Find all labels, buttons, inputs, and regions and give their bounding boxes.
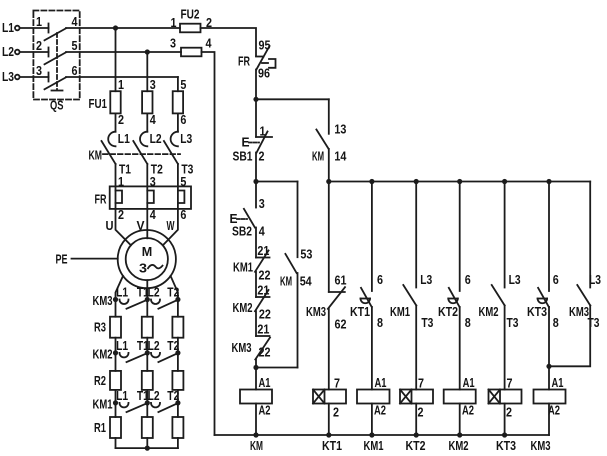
svg-text:A2: A2 [374,403,386,418]
QS pole 1 fixed contact [48,24,50,33]
svg-text:L2: L2 [148,338,160,353]
svg-text:A1: A1 [375,375,387,390]
svg-text:1: 1 [118,77,124,92]
junction rotor bus C KM3 row [175,297,180,302]
svg-text:KM3: KM3 [531,438,551,453]
wire phase C down to FU1 [177,77,179,91]
wire rotor lead 2 [146,280,148,299]
junction rotor bus B KM2 row [145,350,150,355]
svg-text:T3: T3 [421,315,433,330]
wire rung2 upper [371,182,373,292]
wire rung1 upper [328,182,330,292]
contactor KM main contact pole 3 fixed arc [171,132,178,147]
wire self-hold join [256,367,298,369]
svg-text:6: 6 [377,272,383,287]
svg-text:5: 5 [180,174,186,189]
junction rotor bus A KM2 row [113,350,118,355]
junction control bus rung 6 [546,179,551,184]
fuse FU1 pole 3 [173,91,183,113]
time relay KT1 NO delayed contact [361,288,372,307]
svg-text:KM1: KM1 [390,304,410,319]
svg-text:L2: L2 [150,131,162,146]
wire V to motor [146,209,148,238]
junction bottom KT3 [502,432,507,437]
svg-text:14: 14 [334,148,347,163]
svg-text:SB2: SB2 [232,224,252,239]
junction FR output [253,97,258,102]
svg-text:95: 95 [259,38,271,53]
wire KM pole 2 to FR heater [146,164,148,187]
wire rotor column C segments [177,300,179,317]
junction rotor bus C KM2 row [175,350,180,355]
svg-text:L1: L1 [116,285,128,300]
svg-text:1: 1 [118,174,124,189]
resistor R1 phase 3 [172,417,183,438]
svg-text:6: 6 [553,272,559,287]
svg-text:QS: QS [50,98,64,113]
wire rotor star point [116,447,178,449]
svg-text:KT2: KT2 [438,304,458,319]
KM1 contact a blade [127,403,147,412]
contactor KM main contact pole 3 blade [164,141,178,164]
svg-text:R2: R2 [94,373,106,388]
wire W to motor [163,209,178,245]
svg-text:KM2: KM2 [449,438,469,453]
svg-text:4: 4 [150,112,157,127]
wire QS pin4 to FU2 upper fuse [66,27,180,29]
wire control bus segment A [256,181,298,183]
wire KM coil to bottom bus [255,404,257,436]
svg-text:L3: L3 [180,131,192,146]
svg-text:SB1: SB1 [233,149,253,164]
contactor KM main contact pole 1 blade [102,141,116,164]
junction control bus left [253,179,258,184]
contactor KM main contact pole 2 blade [133,141,147,164]
junction rotor bus B KM1 row [145,400,150,405]
svg-text:21: 21 [257,322,269,337]
resistor R3 phase 3 [172,317,183,338]
junction control bus rung 1 [326,179,331,184]
junction control bus rung 3 [414,179,419,184]
svg-text:KM: KM [250,438,263,453]
QS pole 3 fixed contact [48,73,50,82]
KM1 contact b fixed arc [151,403,160,408]
contactor KM3 NO self-hold contact L3-T3 [577,285,590,306]
svg-text:4: 4 [150,207,157,222]
wire rung2 lower [371,307,373,390]
junction rotor bus A KM3 row [113,297,118,302]
junction control bus rung 2 [369,179,374,184]
wire self-hold branch lower [297,273,299,368]
motor M 3-phase [118,230,176,288]
resistor R3 phase 1 [110,317,121,338]
KM3 contact a fixed arc [120,300,129,305]
wire rotor lead 1 [116,276,124,300]
wire control bus segment B [329,181,590,183]
svg-text:2: 2 [118,207,124,222]
svg-text:KM: KM [312,148,324,163]
wire FU1 pole 2 to KM main contact [146,113,148,131]
contactor KM main contact pole 2 fixed arc [140,132,147,147]
svg-text:4: 4 [206,36,213,51]
svg-text:8: 8 [465,315,471,330]
fuse FU2 element 2 [181,48,202,57]
FR heater element pole 1 [115,186,117,209]
svg-text:1: 1 [36,14,42,29]
KM3 contact a blade [127,300,147,309]
svg-text:3: 3 [36,63,42,78]
svg-text:2: 2 [418,405,424,420]
KM2 contact a fixed arc [120,353,129,358]
svg-text:KT1: KT1 [322,438,342,453]
svg-text:8: 8 [377,315,383,330]
thermal relay FR heater box [110,186,191,209]
junction control bus rung 5 [502,179,507,184]
svg-text:FU1: FU1 [89,96,108,111]
junction phase B tap [145,49,150,54]
coil KM1 [357,390,390,404]
svg-text:2: 2 [118,112,124,127]
resistor R2 phase 2 [142,371,153,390]
resistor R3 phase 2 [142,317,153,338]
junction bottom KT1 [326,432,331,437]
fuse FU2 element 1 [180,24,201,33]
wire KM pole 3 to FR heater [177,164,179,187]
junction phase A tap [113,25,118,30]
svg-text:L1: L1 [118,131,130,146]
wire rung6 lower [548,307,550,390]
svg-text:21: 21 [257,283,269,298]
svg-text:FR: FR [95,192,107,207]
svg-text:54: 54 [300,273,313,288]
svg-text:7: 7 [334,376,340,391]
wire FU1 pole 3 to KM main contact [177,113,179,131]
wire KM2 coil to bottom bus [459,404,461,436]
svg-text:A1: A1 [259,375,271,390]
svg-text:3: 3 [259,196,265,211]
svg-text:L3: L3 [509,272,521,287]
svg-text:2: 2 [506,405,512,420]
svg-text:21: 21 [257,243,269,258]
svg-text:PE: PE [56,252,68,267]
wire U to motor [116,209,131,245]
coil KM2 [444,390,476,404]
svg-text:6: 6 [180,207,186,222]
svg-text:1: 1 [171,15,177,30]
wire FU1 pole 1 to KM main contact [115,113,117,131]
wire rung7 upper [589,182,591,288]
coil KM3 [534,390,566,404]
svg-text:W: W [167,218,175,233]
svg-text:2: 2 [333,405,339,420]
wire rotor column B segments [146,300,148,317]
wire KT3 coil to bottom bus [504,404,506,436]
wire rung3 lower [415,306,417,390]
QS pole 2 blade [45,52,67,64]
QS pole 2 fixed contact [48,48,50,57]
wire rung5 lower [504,306,506,390]
wire control bottom bus [215,434,550,436]
wire rung3 upper [415,182,417,288]
svg-text:7: 7 [418,376,424,391]
wire FU2 pin2 to FR contact [201,28,257,56]
wire QS pin5 to FU2 lower fuse [66,51,181,53]
svg-text:U: U [106,218,114,233]
wire QS pin6 to phase C column [66,76,178,78]
FR contact actuator symbol [262,62,268,64]
svg-text:22: 22 [259,307,271,322]
fuse FU1 pole 2 [142,91,152,113]
svg-text:7: 7 [507,376,513,391]
svg-text:KM: KM [89,148,103,163]
svg-text:KT3: KT3 [496,438,516,453]
svg-text:22: 22 [259,345,271,360]
svg-text:6: 6 [180,112,186,127]
junction rotor bus B KM3 row [145,297,150,302]
wire KT1 coil to bottom bus [328,404,330,436]
svg-text:L1: L1 [2,20,14,35]
svg-text:61: 61 [335,272,347,287]
svg-text:KT2: KT2 [406,438,426,453]
resistor R2 phase 3 [172,371,183,390]
QS mechanical linkage [56,33,58,90]
svg-text:KT1: KT1 [350,304,370,319]
svg-text:L2: L2 [2,44,14,59]
junction rotor bus A KM1 row [113,400,118,405]
time relay KT3 NO delayed contact [538,288,549,307]
junction bottom KM1 [369,432,374,437]
junction control bus rung 4 [457,179,462,184]
svg-text:A2: A2 [259,403,271,418]
thermal relay FR NC contact [256,56,264,58]
svg-text:T3: T3 [507,315,519,330]
svg-text:2: 2 [259,149,265,164]
coil KT3 time relay [489,390,522,404]
junction star point [145,446,150,451]
wire KM 14 to control bus [328,149,330,182]
svg-text:6: 6 [465,272,471,287]
time relay KT2 NO delayed contact [449,288,460,307]
KM main contacts linkage [103,153,180,155]
svg-text:KM3: KM3 [232,340,252,355]
KM2 contact a blade [127,353,147,362]
svg-text:L3: L3 [420,272,432,287]
wire FU2 pin4 control return left side [202,52,215,435]
svg-text:L3: L3 [589,272,601,287]
svg-text:KM3: KM3 [569,304,589,319]
svg-text:T2: T2 [167,285,179,300]
coil KT2 time relay [400,390,433,404]
svg-text:KT3: KT3 [527,304,547,319]
KM1 contact b blade [158,403,177,412]
contactor KM2 NO contact L3-T3 [492,285,505,306]
resistor R1 phase 1 [110,417,121,438]
contactor KM1 NO contact L3-T3 [403,285,416,306]
svg-text:L3: L3 [2,69,14,84]
wire L1 to QS pole 1 [20,27,49,29]
KM1 contact a fixed arc [120,403,129,408]
svg-text:KM: KM [280,273,292,288]
junction KM3 self-hold join [546,364,551,369]
contactor KM self-hold contact 53-54 [285,254,296,273]
wire KM1 coil to bottom bus [371,404,373,436]
pushbutton SB2 start NO [255,182,257,208]
svg-text:KM3: KM3 [93,293,113,308]
svg-text:5: 5 [72,38,78,53]
svg-text:A1: A1 [552,375,564,390]
fuse FU1 pole 1 [110,91,120,113]
contactor KM main contact pole 1 fixed arc [108,132,115,147]
wire rotor column A segments [115,300,117,317]
svg-text:4: 4 [259,224,266,239]
svg-text:3: 3 [170,36,176,51]
resistor R2 phase 1 [110,371,121,390]
svg-text:M: M [142,244,153,259]
junction rotor bus C KM1 row [175,400,180,405]
svg-text:6: 6 [72,63,78,78]
svg-text:4: 4 [72,14,79,29]
contactor KM NO contact 13-14 [316,130,328,149]
wire L2 to QS pole 2 [20,51,49,53]
svg-text:53: 53 [300,246,312,261]
svg-text:96: 96 [258,66,270,81]
svg-text:KM3: KM3 [306,304,326,319]
switch QS dashed enclosure [33,11,79,100]
svg-text:3: 3 [139,261,147,276]
svg-text:KM1: KM1 [364,438,384,453]
coil KM [240,390,272,404]
svg-text:3: 3 [150,77,156,92]
FR heater element pole 2 [146,186,148,209]
svg-text:8: 8 [553,315,559,330]
svg-text:3: 3 [150,174,156,189]
wire KM 13 feed from FR [328,99,330,134]
wire L3 to QS pole 3 [20,76,49,78]
svg-text:13: 13 [334,122,346,137]
svg-text:A2: A2 [462,403,474,418]
KM2 contact b fixed arc [151,353,160,358]
wire rung6 upper [548,182,550,292]
contactor KM1 NC interlock contact [256,257,270,259]
svg-text:R1: R1 [94,420,106,435]
svg-text:KM2: KM2 [93,346,113,361]
wire phase B down to FU1 [146,52,148,91]
svg-text:A1: A1 [463,375,475,390]
wire self-hold branch upper [297,182,299,258]
wire rung7 to KM3 coil branch [549,306,590,367]
FR heater element pole 3 [177,186,179,209]
wire rung5 upper [504,182,506,288]
svg-text:L1: L1 [116,338,128,353]
svg-text:22: 22 [259,268,271,283]
svg-text:5: 5 [180,77,186,92]
svg-text:2: 2 [36,38,42,53]
resistor R1 phase 2 [142,417,153,438]
svg-text:62: 62 [335,316,347,331]
KM3 contact b fixed arc [151,300,160,305]
junction KM coil feed [253,365,258,370]
svg-text:KM2: KM2 [479,304,499,319]
svg-text:R3: R3 [94,320,106,335]
svg-text:1: 1 [260,124,266,139]
QS pole 1 blade [45,28,67,40]
wire rung4 lower [459,307,461,390]
svg-text:FR: FR [238,54,250,69]
junction bottom KM [253,432,258,437]
svg-text:L2: L2 [148,285,160,300]
contactor KM2 NC interlock contact [256,296,270,298]
contactor KM3 NC contact 61-62 [329,291,345,293]
wire KT2 coil to bottom bus [415,404,417,436]
junction bottom KT2 [414,432,419,437]
wire rung1 lower [328,309,330,390]
KM2 contact b blade [158,353,177,362]
wire to KM coil [255,368,257,390]
wire KM pole 1 to FR heater [115,164,117,187]
svg-text:FU2: FU2 [181,7,200,22]
junction bottom KM2 [457,432,462,437]
QS pole 3 blade [45,77,67,89]
contactor KM3 NC interlock contact [256,335,270,337]
wire rotor lead 3 [171,276,178,300]
svg-text:KM2: KM2 [233,300,253,315]
wire rung4 upper [459,182,461,292]
coil KT1 time relay [313,390,346,404]
KM3 contact b blade [158,300,177,309]
svg-text:KM1: KM1 [233,260,253,275]
wire phase A down to FU1 [115,28,117,91]
wire FR output to KM 13 branch [256,98,329,100]
svg-text:KM1: KM1 [93,396,113,411]
wire KM3 coil to bottom bus [548,404,550,436]
pushbutton SB1 stop NC [255,99,257,137]
